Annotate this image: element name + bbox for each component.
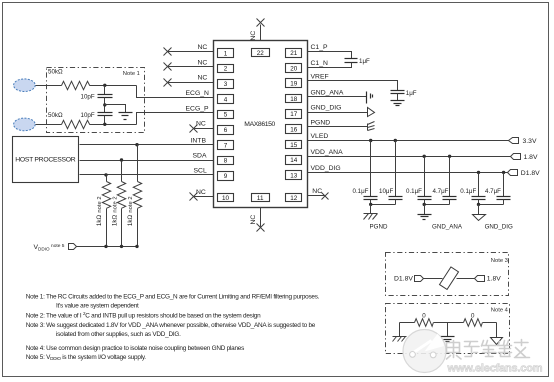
svg-text:1kΩ: 1kΩ	[127, 215, 134, 227]
wire C1_P	[308, 52, 352, 59]
supply tag 1.8V (note3)	[475, 276, 485, 282]
svg-text:NC: NC	[196, 121, 206, 128]
watermark logo disc	[403, 330, 446, 373]
capacitor C 10pF top	[104, 86, 106, 95]
wire VDD_DIG rail	[308, 172, 508, 174]
capacitor C 4.7uF (VDD_ANA)	[448, 155, 451, 158]
pullup resistor R 1k on SCL	[104, 173, 107, 176]
svg-text:0: 0	[422, 313, 426, 320]
svg-text:7: 7	[224, 142, 228, 149]
svg-text:20: 20	[290, 65, 298, 72]
pin box 16	[286, 125, 302, 134]
svg-text:Note 5: VDDIO is the system I/: Note 5: VDDIO is the system I/O voltage …	[26, 354, 147, 361]
svg-text:Note 4: Note 4	[491, 308, 509, 314]
svg-text:8: 8	[224, 158, 228, 165]
wire to ferrite bead	[424, 278, 443, 280]
note4 ground middle (earth)	[447, 323, 449, 337]
capacitor C 4.7uF (VDD_DIG)	[502, 171, 505, 174]
capacitor C 0.1uF (VDD_DIG)	[477, 171, 480, 174]
note4 ground right (open triangle)	[496, 323, 498, 338]
GND_ANA cap bus	[425, 204, 450, 206]
wire bead to 1.8V tag	[457, 278, 475, 280]
supply tag D1.8V	[508, 170, 518, 176]
svg-text:VDD_DIG: VDD_DIG	[311, 165, 341, 172]
svg-text:10: 10	[222, 195, 230, 202]
svg-text:0: 0	[471, 313, 475, 320]
svg-text:www.elecfans.com: www.elecfans.com	[447, 363, 543, 375]
svg-text:NC: NC	[198, 75, 208, 82]
svg-text:SDA: SDA	[193, 153, 207, 160]
wire cap to node B	[104, 98, 106, 113]
svg-text:9: 9	[224, 173, 228, 180]
svg-text:NC: NC	[250, 31, 257, 41]
svg-text:2: 2	[224, 66, 228, 73]
ground (earth) in RC box	[119, 113, 133, 120]
svg-text:50kΩ: 50kΩ	[48, 69, 63, 76]
svg-text:13: 13	[290, 172, 298, 179]
node A junction	[103, 84, 106, 87]
svg-text:1.8V: 1.8V	[524, 154, 538, 161]
pin box 14	[286, 156, 302, 165]
svg-text:GND_DIG: GND_DIG	[485, 223, 513, 230]
svg-text:ECG_P: ECG_P	[186, 105, 210, 112]
supply tag 3.3V	[509, 138, 519, 144]
VDDIO rail	[77, 246, 138, 248]
svg-text:50kΩ: 50kΩ	[48, 112, 63, 119]
wire SCL	[80, 174, 214, 176]
pin box 11	[252, 194, 270, 202]
pin box 12	[286, 194, 302, 202]
svg-text:D1.8V: D1.8V	[521, 170, 540, 177]
svg-text:SCL: SCL	[194, 168, 207, 175]
svg-text:4.7μF: 4.7μF	[485, 188, 501, 195]
svg-text:0.1μF: 0.1μF	[406, 188, 422, 195]
ground GND_DIG (open triangle down)	[473, 215, 486, 221]
svg-text:GND_ANA: GND_ANA	[432, 223, 463, 230]
svg-text:NC: NC	[198, 44, 208, 51]
svg-text:C1_N: C1_N	[311, 60, 328, 67]
capacitor C 1uF flying	[345, 58, 358, 60]
svg-text:5: 5	[224, 112, 228, 119]
ground GND_ANA (earth)	[418, 215, 432, 220]
svg-text:VDD_ANA: VDD_ANA	[311, 149, 344, 156]
pin box 3	[218, 80, 234, 89]
svg-text:10pF: 10pF	[81, 112, 95, 119]
svg-text:3: 3	[224, 81, 228, 88]
PGND cap bus	[371, 204, 396, 206]
svg-text:GND_DIG: GND_DIG	[311, 105, 342, 112]
electrode pad E2	[14, 118, 36, 131]
wire R1 to step	[90, 85, 137, 87]
wire R2 to step	[90, 124, 137, 126]
pin box 7	[218, 141, 234, 150]
svg-text:VLED: VLED	[311, 133, 329, 140]
svg-text:INTB: INTB	[191, 137, 207, 144]
svg-text:NC: NC	[198, 59, 208, 66]
resistor R 0 ohm left	[415, 319, 434, 327]
svg-text:12: 12	[290, 195, 298, 202]
svg-text:C1_P: C1_P	[311, 44, 328, 51]
svg-text:It's value are system dependen: It's value are system dependent	[56, 303, 139, 310]
svg-text:VREF: VREF	[311, 73, 329, 80]
wire VREF	[308, 81, 398, 91]
svg-text:note 2: note 2	[113, 196, 119, 212]
wire C1_N	[308, 63, 352, 68]
ferrite bead FB (tilted)	[440, 267, 459, 290]
ground VREF	[397, 94, 399, 101]
Note 4 dashed box	[386, 304, 510, 354]
capacitor C 10uF (VLED)	[394, 139, 397, 142]
ground symbol GND_DIG (open triangle)	[368, 108, 375, 117]
svg-text:note 2: note 2	[128, 196, 134, 212]
wire step down to ECG_N	[137, 86, 214, 98]
capacitor C 0.1uF (VDD_ANA)	[423, 155, 426, 158]
svg-text:18: 18	[290, 96, 298, 103]
note4 ground left (hatched)	[399, 323, 401, 337]
NC stub pin22 top	[260, 25, 262, 41]
svg-text:6: 6	[224, 127, 228, 134]
pin box 21	[286, 49, 302, 58]
wire INTB	[80, 144, 214, 146]
svg-text:MAX86150: MAX86150	[244, 121, 275, 128]
pullup resistor R 1k on INTB	[135, 143, 138, 146]
svg-text:11: 11	[257, 195, 264, 202]
wire VLED rail	[308, 140, 509, 142]
wire electrode E1 to R1	[36, 85, 62, 87]
NC stub pin1	[168, 51, 214, 53]
svg-text:Note 3: Note 3	[491, 258, 508, 264]
svg-text:21: 21	[290, 50, 298, 57]
svg-text:1kΩ: 1kΩ	[112, 215, 119, 227]
note4 wire right	[483, 322, 497, 324]
svg-text:D1.8V: D1.8V	[394, 276, 413, 283]
node B junction	[103, 103, 106, 106]
svg-text:10μF: 10μF	[379, 188, 393, 195]
svg-text:PGND: PGND	[370, 223, 388, 230]
wire PGND pin	[308, 126, 368, 128]
wire SDA	[80, 160, 214, 162]
note4 wire left	[400, 322, 415, 324]
NC stub pin12	[308, 195, 325, 197]
svg-text:1kΩ: 1kΩ	[96, 215, 103, 227]
svg-text:1μF: 1μF	[359, 58, 370, 65]
ground symbol GND_ANA (sideways earth)	[367, 92, 373, 104]
pin box 8	[218, 157, 234, 165]
node C junction	[103, 123, 106, 126]
pin box 4	[218, 95, 234, 104]
HOST PROCESSOR box	[13, 137, 79, 183]
NC stub pin10	[194, 196, 214, 198]
pin box 20	[286, 64, 302, 73]
svg-text:ECG_N: ECG_N	[186, 90, 210, 97]
pin box 19	[286, 79, 302, 88]
svg-text:3.3V: 3.3V	[523, 138, 537, 145]
wire GND_DIG pin	[308, 112, 368, 114]
svg-text:Note 3: We suggest dedicated 1: Note 3: We suggest dedicated 1.8V for VD…	[26, 322, 316, 329]
svg-text:note 2: note 2	[97, 196, 103, 212]
NC stub pin2	[168, 66, 214, 68]
capacitor C 0.1uF (VLED)	[369, 139, 372, 142]
supply tag 1.8V	[511, 154, 521, 160]
pullup resistor R 1k on SDA	[120, 158, 123, 161]
svg-text:15: 15	[290, 142, 298, 149]
svg-text:22: 22	[257, 50, 265, 57]
watermark glyphs (stylised)	[447, 340, 530, 360]
svg-text:PGND: PGND	[311, 120, 331, 127]
svg-text:19: 19	[290, 81, 298, 88]
wire cap to node C	[104, 116, 106, 125]
pin box 17	[286, 110, 302, 119]
RC filter dashed box Note 1	[47, 68, 145, 133]
note4 wire middle	[434, 322, 464, 324]
svg-text:Note 4: Use common design prac: Note 4: Use common design practice to is…	[26, 345, 244, 352]
wire step up to ECG_P	[137, 113, 214, 125]
NC stub pin6	[194, 128, 214, 130]
svg-text:NC: NC	[196, 189, 206, 196]
svg-text:16: 16	[290, 127, 298, 134]
Note 3 dashed box	[386, 253, 509, 296]
svg-text:GND_ANA: GND_ANA	[311, 89, 344, 96]
svg-text:Note 1: The RC Circuits added: Note 1: The RC Circuits added to the ECG…	[26, 294, 320, 301]
svg-text:HOST PROCESSOR: HOST PROCESSOR	[15, 156, 76, 163]
svg-text:1μF: 1μF	[406, 90, 417, 97]
pin box 5	[218, 111, 234, 119]
wire VDD_ANA rail	[308, 156, 511, 158]
GND_DIG cap bus	[479, 204, 504, 206]
ground symbol PGND (sideways hatched)	[368, 122, 375, 131]
NC stub pin3	[168, 82, 214, 84]
pin box 18	[286, 95, 302, 103]
IC U1 MAX86150 body	[214, 41, 308, 208]
svg-text:10pF: 10pF	[81, 94, 95, 101]
resistor R 50k top	[62, 81, 90, 89]
VDDIO supply tag	[69, 244, 77, 250]
resistor R 50k bottom	[62, 120, 90, 128]
wire node B to ground	[105, 105, 126, 113]
capacitor C 1uF VREF	[391, 90, 405, 92]
svg-text:NC: NC	[250, 215, 257, 225]
electrode pad E1	[14, 79, 36, 92]
wire GND_ANA pin	[308, 96, 367, 98]
svg-text:Note 2: The value of I 2C and: Note 2: The value of I 2C and INTB pull …	[26, 311, 261, 319]
pin box 1	[218, 49, 234, 58]
svg-text:NC: NC	[312, 188, 322, 195]
pin box 13	[286, 171, 302, 180]
svg-text:1.8V: 1.8V	[487, 276, 501, 283]
svg-text:4.7μF: 4.7μF	[433, 188, 449, 195]
svg-text:Note 1: Note 1	[123, 71, 140, 77]
wire electrode E2 to R2	[36, 124, 62, 126]
svg-text:14: 14	[290, 157, 298, 164]
svg-text:0.1μF: 0.1μF	[460, 188, 476, 195]
capacitor C 10pF bottom	[98, 112, 113, 114]
svg-text:17: 17	[290, 111, 298, 118]
NC stub pin11 bottom	[260, 208, 262, 227]
pin box 22	[252, 49, 270, 57]
svg-text:4: 4	[224, 96, 228, 103]
svg-text:0.1μF: 0.1μF	[353, 188, 369, 195]
svg-text:1: 1	[224, 50, 228, 57]
ground PGND (hatched)	[364, 214, 378, 220]
pin box 2	[218, 65, 234, 73]
pin box 15	[286, 141, 302, 149]
resistor R 0 ohm right	[464, 319, 483, 327]
notes text block	[26, 294, 320, 362]
pin box 6	[218, 126, 234, 135]
pin box 10	[218, 194, 234, 202]
pin box 9	[218, 172, 234, 181]
svg-text:isolated from other supplies,: isolated from other supplies, such as VD…	[56, 331, 181, 338]
